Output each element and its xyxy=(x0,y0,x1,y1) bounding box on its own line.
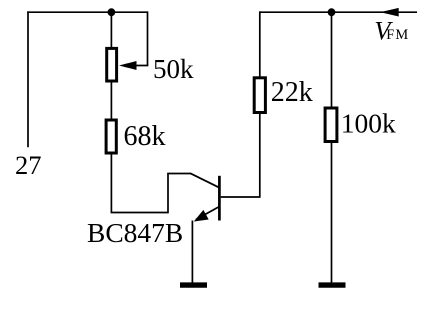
wire: junction down to potentiometer top xyxy=(110,12,112,48)
wire: junction down to 100k top xyxy=(331,12,333,107)
input arrowhead on VFM line xyxy=(380,8,399,17)
resistor R3 22k body xyxy=(254,78,265,113)
wire: potentiometer bottom to 68k top xyxy=(110,82,112,120)
wire: 68k bottom down xyxy=(110,154,112,213)
wire: 22k top up to top-right bus xyxy=(259,11,261,77)
node: junction dot left xyxy=(108,8,116,16)
wire: top-right horizontal bus xyxy=(259,11,417,13)
wire: top-left horizontal bus xyxy=(27,11,147,13)
ground (100k) xyxy=(319,282,346,287)
svg-text:100k: 100k xyxy=(341,107,396,138)
potentiometer R1 50k body xyxy=(107,48,117,81)
wire: wiper horizontal xyxy=(130,65,148,67)
transistor Q1 emitter diagonal xyxy=(196,207,219,220)
wire: 100k bottom down to ground xyxy=(331,143,333,284)
svg-text:50k: 50k xyxy=(153,54,194,84)
wire: collector lead horizontal xyxy=(167,173,191,175)
wire: horizontal jog bottom xyxy=(111,212,168,214)
wiper arrowhead of potentiometer xyxy=(119,61,137,70)
wire: right vertical of wiper feedback xyxy=(147,11,149,65)
wire: left vertical to terminal 27 xyxy=(27,11,29,147)
svg-text:BC847B: BC847B xyxy=(87,217,183,248)
svg-text:22k: 22k xyxy=(271,77,313,108)
svg-text:27: 27 xyxy=(15,150,42,180)
wire: base lead horizontal to right xyxy=(221,196,260,198)
resistor R2 68k body xyxy=(106,120,116,153)
wire: base lead vertical up to 22k xyxy=(259,114,261,198)
transistor Q1 base bar xyxy=(218,176,221,221)
transistor Q1 collector diagonal xyxy=(190,173,219,187)
ground (emitter) xyxy=(180,282,207,287)
svg-text:FM: FM xyxy=(386,27,409,43)
transistor Q1 emitter arrowhead xyxy=(194,210,209,222)
svg-text:68k: 68k xyxy=(124,121,166,152)
wire: emitter vertical down to ground xyxy=(191,221,193,284)
node: junction dot right xyxy=(328,8,336,16)
wire: vertical jog up to collector xyxy=(167,174,169,214)
resistor R4 100k body xyxy=(325,108,337,142)
